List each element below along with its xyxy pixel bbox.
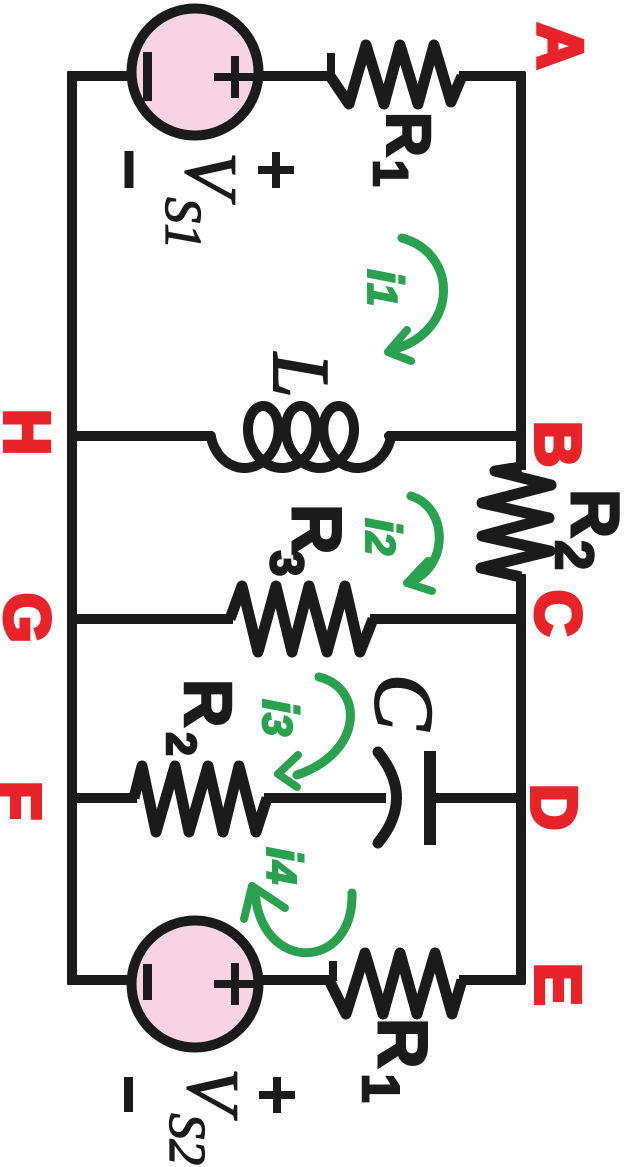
svg-text:i4: i4 <box>256 847 312 884</box>
VS1 internal minus sign <box>143 52 152 101</box>
wire top rail segment (corner A to VS1) <box>68 71 132 81</box>
wire F-D rail left (node F to R2) <box>72 793 137 803</box>
svg-text:i1: i1 <box>357 269 413 306</box>
VS2 terminal plus label <box>259 1077 295 1113</box>
VS1 internal plus sign <box>214 56 256 98</box>
VS1 terminal minus label <box>125 151 134 188</box>
svg-text:H: H <box>0 409 63 455</box>
wire H-B rail left (node H to inductor) <box>72 431 213 441</box>
wire bottom rail segment (VS2 to R1) <box>259 975 332 985</box>
svg-text:i2: i2 <box>355 518 411 555</box>
stray tick at R1 top left end <box>327 53 335 76</box>
resistor R1 (bottom rail) <box>329 953 462 1014</box>
svg-text:C: C <box>522 590 594 636</box>
svg-text:C: C <box>357 674 450 731</box>
capacitor C curved plate <box>378 752 397 843</box>
resistor R2 (right rail, vertical) <box>481 467 551 577</box>
wire F-D rail right (capacitor to node D) <box>433 793 521 803</box>
VS1 terminal plus label <box>258 152 294 188</box>
svg-text:B: B <box>522 421 594 467</box>
wire F-D rail mid (R2 to capacitor) <box>264 793 386 803</box>
VS2 internal minus sign <box>143 964 152 1000</box>
capacitor C straight plate <box>424 751 436 845</box>
svg-text:D: D <box>518 784 590 830</box>
stray tick at R1 bottom left end <box>329 961 337 981</box>
wire bottom rail segment (R1 to corner E) <box>459 975 525 985</box>
current arrow i2 <box>407 496 439 591</box>
wire right rail lower (R2 through nodes C and D to corner E) <box>516 574 526 985</box>
svg-text:G: G <box>0 593 63 643</box>
current arrow i3 <box>278 677 350 787</box>
svg-text:E: E <box>522 963 594 1006</box>
VS2 terminal minus label <box>124 1077 133 1112</box>
VS2 internal plus sign <box>214 963 256 1005</box>
svg-text:F: F <box>0 781 54 820</box>
current arrow i4 <box>244 886 352 953</box>
voltage source VS1 circle <box>132 9 259 136</box>
wire top rail segment (R1 to corner A) <box>459 71 525 81</box>
wire G-C rail left (node G to R3) <box>72 614 233 624</box>
resistor R3 (G-C rail) <box>230 586 373 652</box>
wire G-C rail right (R3 to node C) <box>370 614 521 624</box>
wire H-B rail right (inductor to node B) <box>387 431 521 441</box>
resistor R1 (top rail) <box>330 45 462 104</box>
wire right rail upper (corner A through node B to R2) <box>516 72 526 471</box>
inductor L (H-B rail coil) <box>211 406 391 468</box>
svg-text:L: L <box>256 352 344 398</box>
svg-text:A: A <box>524 23 596 69</box>
resistor R2 (F-D rail) <box>134 766 267 832</box>
wire bottom rail segment (corner to VS2) <box>68 975 132 985</box>
voltage source VS2 circle <box>132 921 259 1048</box>
wire left rail (top corner down to bottom corner) <box>67 72 77 985</box>
wire top rail segment (VS1 to R1) <box>259 71 333 81</box>
svg-text:i3: i3 <box>252 699 308 736</box>
current arrow i1 <box>388 238 444 361</box>
